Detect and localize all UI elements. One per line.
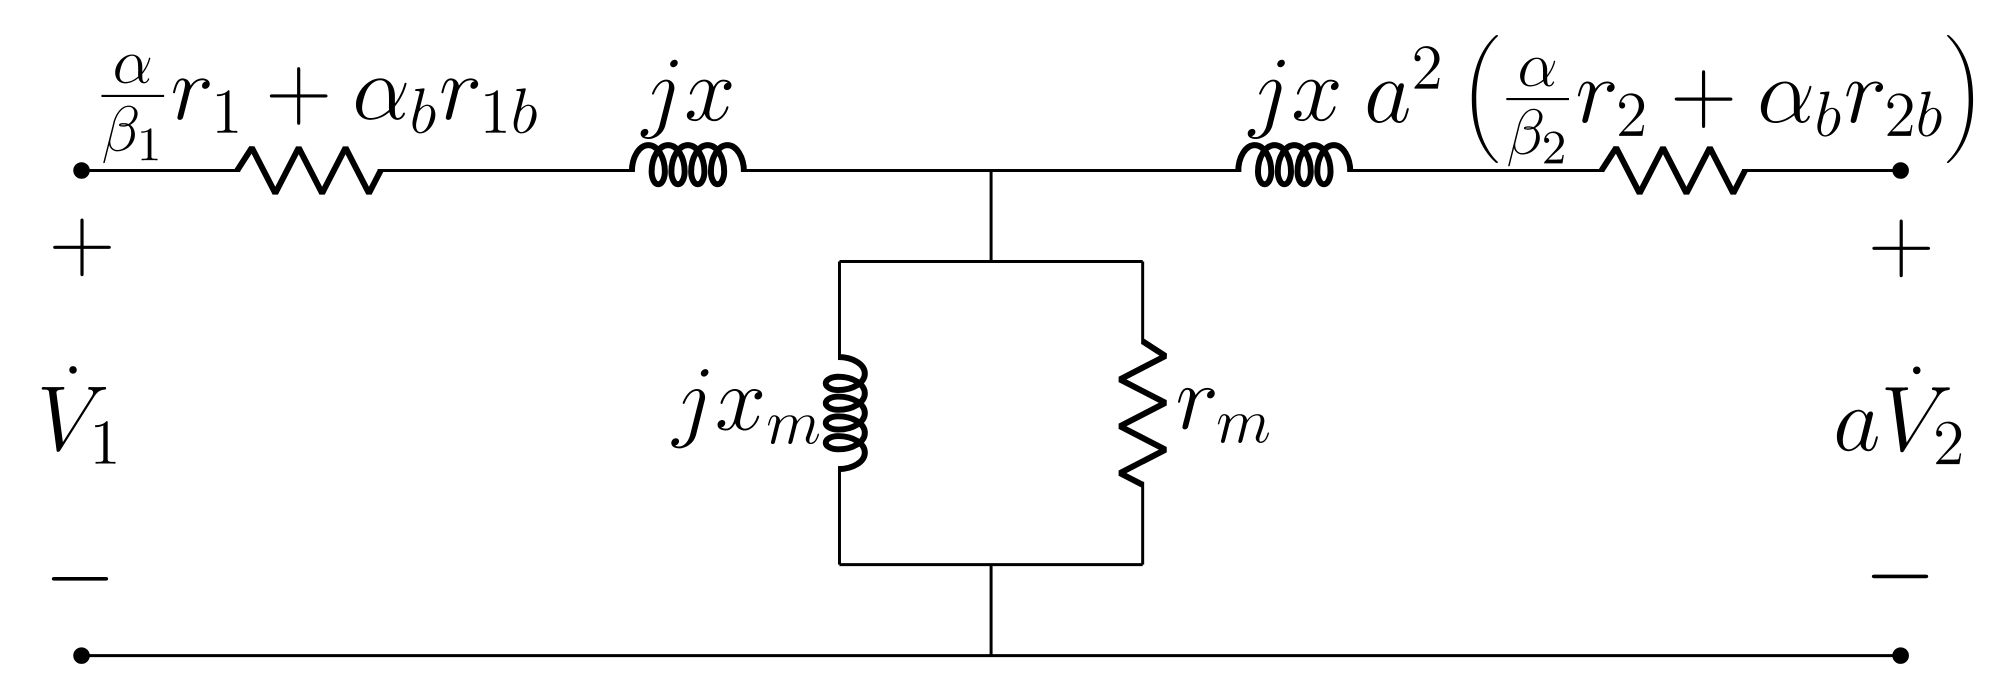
node: right top terminal (junction dot) bbox=[1894, 164, 1908, 178]
inductor L1 body: jx (primary leakage) bbox=[632, 145, 744, 184]
wire: left branch below Lm bbox=[838, 466, 840, 565]
wire: R1 to L1 bbox=[378, 170, 635, 172]
wire: L1 through node A to L2 bbox=[741, 170, 1241, 172]
value label of R2: a^2( alpha/beta_2 r2 + alpha_b r2b ) bbox=[1368, 81, 1409, 123]
value label of L1: jx bbox=[641, 60, 678, 139]
resistor R1 body: (alpha/beta1)r1 + alpha_b r1b bbox=[237, 148, 380, 193]
inductor L2 body: jx (secondary leakage) bbox=[1238, 145, 1350, 184]
wire: node A to top rail bbox=[990, 171, 992, 262]
value label of R1: fraction alpha/beta_1 times r1 + alpha_b r1b bbox=[115, 55, 150, 84]
resistor Rm (rm) body, right branch of magnetizing block bbox=[1120, 341, 1165, 484]
polarity minus sign of aV2 bbox=[1872, 575, 1928, 579]
wire: right branch above Rm bbox=[1142, 261, 1144, 344]
wire: top-left terminal to R1 bbox=[82, 170, 241, 172]
value label of Lm: jx_m bbox=[671, 369, 708, 448]
wire: bottom rail to bottom conductor bbox=[990, 565, 992, 656]
voltage label V1 (phasor V-dot 1) bbox=[69, 366, 76, 374]
wire: left branch above Lm bbox=[838, 261, 840, 360]
wire: L2 to R2 bbox=[1347, 170, 1604, 172]
wire: bottom return conductor bbox=[82, 655, 1901, 657]
wire: R2 to top-right terminal bbox=[1742, 170, 1901, 172]
voltage label aV2 (phasor a V-dot 2) bbox=[1837, 410, 1878, 452]
inductor Lm (jxm) body, left branch of magnetizing block bbox=[826, 357, 865, 469]
value label of L2: jx bbox=[1248, 60, 1285, 139]
wire: right branch below Rm bbox=[1142, 482, 1144, 565]
polarity plus sign of V1 bbox=[53, 218, 111, 276]
wire: bottom rail of parallel magnetizing block bbox=[839, 564, 1142, 566]
value label of Rm: r_m bbox=[1178, 388, 1215, 430]
resistor R2 body: a^2((alpha/beta2)r2 + alpha_b r2b) bbox=[1601, 148, 1744, 193]
node: left bottom terminal (junction dot) bbox=[75, 649, 89, 663]
node: right bottom terminal (junction dot) bbox=[1894, 649, 1908, 663]
polarity plus sign of aV2 bbox=[1872, 219, 1930, 277]
polarity minus sign of V1 bbox=[52, 577, 108, 581]
wire: top rail of parallel magnetizing block bbox=[839, 260, 1142, 262]
node: left top terminal (junction dot) bbox=[75, 164, 89, 178]
